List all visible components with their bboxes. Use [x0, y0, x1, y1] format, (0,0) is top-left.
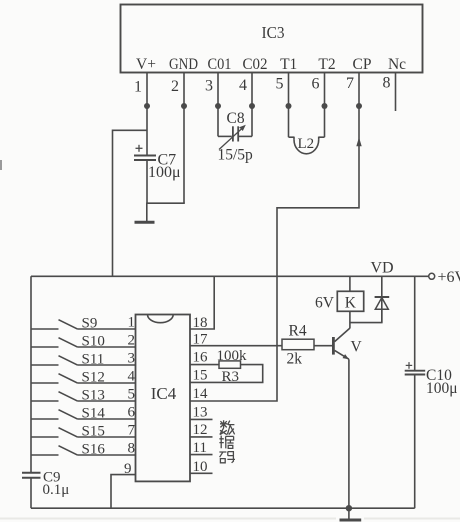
- junction node pin3: [215, 103, 221, 109]
- label shuju-ma char shu: [220, 420, 235, 434]
- terminal +6V: [429, 273, 435, 279]
- svg-text:0.1μ: 0.1μ: [43, 482, 70, 498]
- IC4 pin 16 wire: [190, 364, 219, 366]
- svg-text:GND: GND: [169, 56, 198, 73]
- switch S15: [31, 424, 136, 440]
- wire R3 to pin 15: [190, 365, 263, 383]
- pin 6 stub: [324, 73, 326, 107]
- svg-text:C8: C8: [227, 110, 245, 127]
- label shuju-ma char ju: [219, 436, 233, 449]
- svg-text:100μ: 100μ: [426, 380, 458, 397]
- junction node pin7: [356, 103, 362, 109]
- resistor R4: [282, 339, 314, 350]
- capacitor C9: [22, 473, 41, 478]
- ground stem bottom: [348, 508, 350, 519]
- wire relay to collector: [349, 311, 351, 328]
- switch S9: [31, 316, 136, 332]
- svg-text:R4: R4: [289, 323, 307, 340]
- wire pin5 down: [288, 106, 290, 137]
- IC3 body: [121, 5, 423, 73]
- wire pin4 down: [251, 106, 253, 136]
- wire pin3 to C8: [218, 135, 232, 137]
- inductor L2: [289, 137, 325, 154]
- pin 1 stub: [146, 73, 148, 107]
- wire C8 to pin4: [239, 135, 252, 137]
- svg-text:V+: V+: [136, 56, 156, 73]
- svg-text:T2: T2: [318, 56, 335, 73]
- svg-text:17: 17: [193, 332, 209, 348]
- junction node pin5: [286, 103, 292, 109]
- IC4 body: [136, 315, 191, 482]
- wire pin6 down: [324, 106, 326, 137]
- svg-text:VD: VD: [371, 260, 394, 277]
- transistor V emitter: [335, 350, 349, 359]
- IC4 pin 17 wire to R4: [190, 345, 282, 347]
- pin 3 stub: [217, 73, 219, 107]
- svg-text:2k: 2k: [287, 351, 303, 368]
- svg-text:+6V: +6V: [438, 269, 460, 286]
- pin 7 stub: [358, 73, 360, 107]
- IC4 pin 18 wire to top rail: [190, 276, 214, 329]
- diode VD lead: [381, 276, 383, 322]
- IC4 pin 13 stub: [190, 418, 213, 420]
- svg-text:2: 2: [171, 78, 179, 95]
- transistor V base bar: [332, 337, 335, 355]
- trimmer capacitor C8: [219, 125, 246, 150]
- svg-text:3: 3: [205, 78, 213, 95]
- svg-text:IC4: IC4: [151, 384, 177, 403]
- switch S11: [31, 352, 136, 368]
- relay K: [337, 291, 363, 311]
- svg-text:S14: S14: [82, 406, 106, 422]
- resistor R3: [219, 361, 241, 368]
- svg-text:IC3: IC3: [262, 23, 285, 42]
- switch S14: [31, 406, 136, 422]
- svg-text:K: K: [345, 295, 357, 312]
- svg-text:5: 5: [128, 387, 136, 403]
- relay coil lead top: [349, 276, 351, 291]
- svg-text:S15: S15: [82, 424, 105, 440]
- svg-text:3: 3: [128, 351, 136, 367]
- left edge wire lower: [30, 478, 32, 509]
- svg-text:12: 12: [193, 422, 208, 438]
- svg-text:V: V: [351, 339, 363, 356]
- svg-text:4: 4: [128, 369, 136, 385]
- junction node bottom rail: [346, 505, 352, 511]
- svg-text:14: 14: [193, 386, 209, 402]
- svg-text:S9: S9: [82, 316, 98, 332]
- pin 5 stub: [288, 73, 290, 107]
- wire C7 to GND link: [146, 202, 185, 204]
- svg-text:6: 6: [312, 76, 320, 93]
- scan mark left edge: [0, 160, 2, 170]
- scan smear bottom: [0, 518, 336, 520]
- svg-text:18: 18: [193, 315, 208, 331]
- wire pin3 down: [217, 106, 219, 136]
- svg-text:16: 16: [193, 350, 209, 366]
- svg-text:100μ: 100μ: [148, 164, 181, 181]
- svg-text:S16: S16: [82, 442, 106, 458]
- svg-text:S10: S10: [82, 334, 105, 350]
- scan smear bottom right: [364, 518, 460, 520]
- top rail +6V: [31, 275, 429, 277]
- IC4 pin 10 stub: [190, 472, 213, 474]
- wire C10 top: [414, 276, 416, 370]
- IC4 notch: [148, 315, 174, 323]
- wire C7 bottom: [146, 160, 148, 203]
- svg-text:5: 5: [276, 76, 284, 93]
- switch S16: [31, 442, 136, 458]
- transistor V emitter arrow: [343, 354, 349, 359]
- svg-text:1: 1: [128, 315, 136, 331]
- diode VD: [375, 297, 390, 309]
- arrow on CP wire: [356, 137, 361, 146]
- wire collector node to diode: [350, 309, 382, 322]
- pin 4 stub: [251, 73, 253, 107]
- svg-text:11: 11: [193, 440, 207, 456]
- left edge wire upper: [30, 276, 32, 472]
- wire IC4 pin9 to bottom rail: [111, 475, 136, 509]
- svg-text:10: 10: [193, 459, 208, 475]
- transistor V collector: [335, 328, 350, 342]
- svg-text:C01: C01: [208, 56, 232, 73]
- junction node pin1: [144, 103, 150, 109]
- svg-text:6: 6: [128, 405, 136, 421]
- ground: [135, 221, 155, 224]
- wire V+ branch to lower box rail: [113, 130, 148, 276]
- wire pin2 GND down: [183, 106, 185, 203]
- svg-text:S12: S12: [82, 370, 105, 386]
- switch S10: [31, 334, 136, 350]
- pin 2 stub: [183, 73, 185, 107]
- svg-text:1: 1: [134, 79, 142, 96]
- IC4 pin 12 stub: [190, 436, 213, 438]
- svg-text:T1: T1: [280, 56, 297, 73]
- svg-text:L2: L2: [298, 136, 315, 152]
- svg-text:100k: 100k: [217, 348, 248, 364]
- svg-text:CP: CP: [353, 56, 372, 73]
- junction node pin2: [181, 103, 187, 109]
- svg-text:8: 8: [383, 75, 391, 92]
- svg-text:15/5p: 15/5p: [218, 147, 254, 164]
- wire CP to IC4 pin14: [190, 106, 359, 401]
- switch S12: [31, 370, 136, 386]
- svg-text:C02: C02: [243, 56, 268, 73]
- svg-text:2: 2: [128, 333, 136, 349]
- svg-text:9: 9: [124, 461, 132, 477]
- wire C10 bottom: [414, 375, 416, 509]
- junction node pin4: [249, 103, 255, 109]
- capacitor C10: [405, 362, 426, 374]
- wire R4 to base: [314, 345, 333, 347]
- IC4 pin 11 stub: [190, 454, 213, 456]
- wire pin1 to C7: [146, 106, 148, 155]
- pin 8 stub (Nc): [395, 73, 397, 112]
- svg-text:S11: S11: [82, 352, 105, 368]
- ground stem: [146, 203, 148, 221]
- svg-text:15: 15: [193, 368, 208, 384]
- svg-text:8: 8: [128, 441, 136, 457]
- bottom rail: [31, 507, 415, 509]
- ground bottom: [340, 519, 362, 522]
- svg-text:13: 13: [193, 405, 208, 421]
- svg-text:6V: 6V: [315, 295, 335, 312]
- svg-text:Nc: Nc: [388, 56, 406, 73]
- capacitor C7: [134, 145, 156, 160]
- label shuju-ma char ma: [219, 452, 235, 463]
- svg-text:7: 7: [346, 75, 354, 92]
- junction node pin6: [322, 103, 328, 109]
- svg-text:S13: S13: [82, 388, 105, 404]
- switch S13: [31, 388, 136, 404]
- svg-text:4: 4: [239, 77, 247, 94]
- wire emitter to bottom rail: [348, 359, 350, 508]
- svg-text:7: 7: [128, 423, 136, 439]
